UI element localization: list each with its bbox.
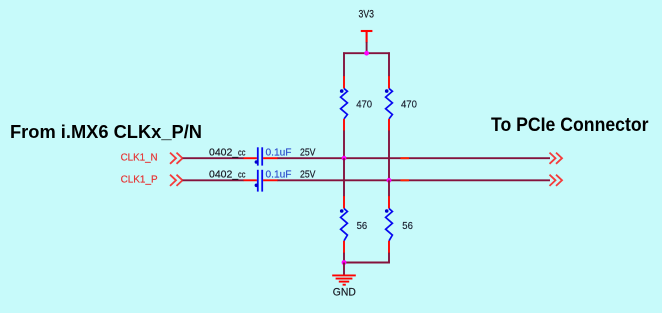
junction CLK1_P with right rail [387,178,392,183]
wire segment red tick CLK1_P [401,179,410,181]
svg-text:56: 56 [357,220,368,232]
svg-text:25V: 25V [300,169,316,181]
svg-text:GND: GND [333,287,356,299]
wire left 470 to CLK1_N line [343,131,345,159]
wire segment red tick CLK1_N [401,157,410,159]
port CLK1_N out [550,153,563,164]
svg-text:cc: cc [238,147,246,157]
wire left rail CLK1_N to 56 [343,158,345,196]
wire 3V3 stub to junction [366,42,368,53]
junction at 3V3 branch [364,51,369,56]
capacitor 0.1uF bottom [244,170,278,192]
label 0402 cc (top) [209,146,246,158]
resistor 470 right [385,76,392,131]
wire 3V3 branch horizontal [343,52,390,54]
port CLK1_P [170,175,183,186]
wire branch to left 470 [343,52,345,76]
resistor 470 left [340,76,347,131]
wire right rail CLK1_P to 56 [388,180,390,196]
svg-text:0402_: 0402_ [209,169,238,181]
port CLK1_N [170,153,183,164]
wire branch to right 470 [388,52,390,76]
svg-text:0402_: 0402_ [209,146,238,158]
svg-text:From i.MX6 CLKx_P/N: From i.MX6 CLKx_P/N [10,122,202,142]
svg-text:CLK1_P: CLK1_P [121,174,158,186]
svg-text:0.1uF: 0.1uF [266,169,292,181]
label 0402 cc (bottom) [209,169,246,181]
capacitor 0.1uF top [244,147,278,165]
resistor 56 right [385,196,392,253]
svg-text:3V3: 3V3 [359,9,375,21]
svg-text:56: 56 [402,220,413,232]
resistor 56 left [340,196,347,253]
wire right 56 to GND node [388,253,390,264]
power symbol 3V3 [361,31,373,43]
wire CLK1_N cap to port right [278,157,551,159]
svg-text:470: 470 [356,99,372,111]
ground symbol [332,275,356,284]
svg-text:470: 470 [401,99,417,111]
wire CLK1_P cap to port right [278,179,551,181]
wire left 56 to GND node [343,253,345,264]
svg-text:cc: cc [238,170,246,180]
svg-text:CLK1_N: CLK1_N [121,151,158,163]
wire GND stub [343,263,345,275]
junction CLK1_N with left rail [342,156,347,161]
port CLK1_P out [550,175,563,186]
wire GND horizontal [343,262,390,264]
svg-text:To PCIe Connector: To PCIe Connector [491,115,649,136]
svg-text:25V: 25V [300,146,316,158]
svg-text:0.1uF: 0.1uF [266,146,292,158]
wire right 470 to CLK1_P line [388,131,390,181]
wire CLK1_P port to cap [183,179,244,181]
wire CLK1_N port to cap [183,157,244,159]
junction GND node [342,260,347,265]
